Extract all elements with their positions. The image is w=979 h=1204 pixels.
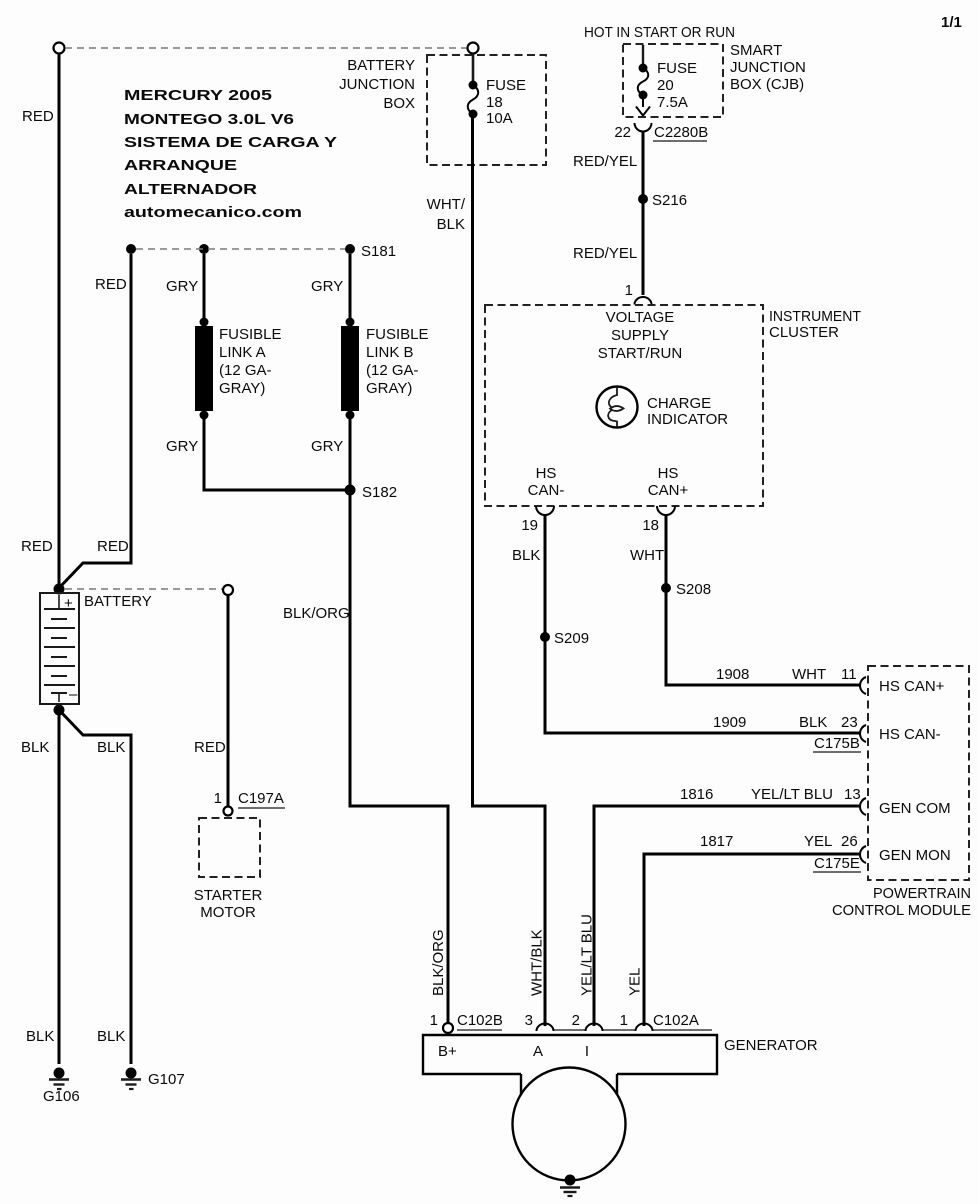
wire: dashed battery bus to starter feed bbox=[65, 588, 222, 590]
svg-text:1: 1 bbox=[625, 282, 633, 299]
svg-text:C175B: C175B bbox=[814, 735, 860, 752]
svg-text:GEN MON: GEN MON bbox=[879, 847, 951, 864]
svg-text:GRAY): GRAY) bbox=[366, 380, 412, 397]
wire: top dashed bus bbox=[65, 47, 467, 49]
svg-text:automecanico.com: automecanico.com bbox=[124, 204, 302, 221]
svg-text:ALTERNADOR: ALTERNADOR bbox=[124, 181, 257, 198]
svg-text:FUSE: FUSE bbox=[486, 77, 526, 94]
svg-text:G107: G107 bbox=[148, 1071, 185, 1088]
generator box bbox=[423, 1035, 717, 1074]
svg-text:GRY: GRY bbox=[166, 438, 198, 455]
node: battery junction box feed circle bbox=[468, 43, 479, 54]
ground G107 bbox=[126, 1068, 137, 1079]
svg-text:BLK: BLK bbox=[437, 216, 465, 233]
svg-text:C175E: C175E bbox=[814, 855, 860, 872]
svg-text:BLK: BLK bbox=[26, 1028, 54, 1045]
svg-text:22: 22 bbox=[614, 124, 631, 141]
svg-text:STARTER: STARTER bbox=[194, 887, 263, 904]
svg-text:2: 2 bbox=[572, 1012, 580, 1029]
svg-text:RED: RED bbox=[95, 276, 127, 293]
svg-text:G106: G106 bbox=[43, 1088, 80, 1105]
wire: GRY from link A to S182 bbox=[204, 419, 345, 490]
svg-text:GRY: GRY bbox=[311, 278, 343, 295]
connector pin 19 bbox=[536, 506, 554, 515]
svg-text:1908: 1908 bbox=[716, 666, 749, 683]
battery negative junction dot bbox=[54, 705, 65, 716]
svg-text:–: – bbox=[69, 686, 78, 703]
svg-text:BLK: BLK bbox=[512, 547, 540, 564]
fusible link B bbox=[346, 318, 355, 327]
svg-text:CONTROL MODULE: CONTROL MODULE bbox=[832, 902, 971, 919]
splice S208 bbox=[661, 583, 671, 593]
wire: YEL/LT BLU from PCM 13 to generator I bbox=[594, 806, 859, 1026]
wire: WHT from pin 18 to PCM 11 bbox=[666, 515, 859, 686]
svg-text:WHT: WHT bbox=[630, 547, 664, 564]
svg-text:YEL: YEL bbox=[627, 968, 644, 996]
powertrain control module box (dashed) bbox=[868, 666, 969, 880]
node: starter feed circle bbox=[223, 585, 233, 595]
svg-text:10A: 10A bbox=[486, 110, 513, 127]
svg-text:CAN-: CAN- bbox=[528, 482, 565, 499]
svg-text:13: 13 bbox=[844, 786, 861, 803]
svg-text:GRY: GRY bbox=[166, 278, 198, 295]
svg-text:MERCURY 2005: MERCURY 2005 bbox=[124, 87, 272, 104]
svg-text:GEN COM: GEN COM bbox=[879, 800, 951, 817]
svg-text:3: 3 bbox=[525, 1012, 533, 1029]
svg-text:MONTEGO 3.0L V6: MONTEGO 3.0L V6 bbox=[124, 111, 294, 128]
svg-text:+: + bbox=[64, 595, 73, 612]
wire: GRY to fusible link B bbox=[349, 254, 352, 322]
svg-text:1: 1 bbox=[214, 790, 222, 807]
battery junction box (dashed) bbox=[427, 55, 546, 165]
svg-text:RED: RED bbox=[194, 739, 226, 756]
S181 splice bus (dashed) bbox=[126, 244, 136, 254]
wire: RED from S181 to battery + bbox=[59, 254, 131, 588]
svg-text:C102A: C102A bbox=[653, 1012, 699, 1029]
svg-text:(12 GA-: (12 GA- bbox=[366, 362, 419, 379]
svg-text:1816: 1816 bbox=[680, 786, 713, 803]
svg-text:1: 1 bbox=[620, 1012, 628, 1029]
svg-text:BOX (CJB): BOX (CJB) bbox=[730, 76, 804, 93]
starter motor box (dashed) bbox=[199, 818, 260, 877]
charge indicator lamp bbox=[597, 387, 638, 428]
svg-text:GRAY): GRAY) bbox=[219, 380, 265, 397]
svg-text:BATTERY: BATTERY bbox=[84, 593, 152, 610]
wire: RED/YEL to instrument cluster bbox=[642, 132, 645, 296]
svg-text:S216: S216 bbox=[652, 192, 687, 209]
splice S182 bbox=[345, 485, 356, 496]
svg-text:YEL/LT BLU: YEL/LT BLU bbox=[579, 914, 596, 996]
node: top-left junction circle bbox=[54, 43, 65, 54]
connector pin 13 at PCM bbox=[860, 798, 866, 815]
svg-text:S182: S182 bbox=[362, 484, 397, 501]
svg-text:BLK: BLK bbox=[21, 739, 49, 756]
connector pin 11 at PCM bbox=[860, 677, 866, 694]
fuse 20 7.5A bbox=[642, 45, 644, 66]
svg-text:HOT IN START OR RUN: HOT IN START OR RUN bbox=[584, 24, 735, 41]
wire: BLK right to G107 bbox=[60, 711, 131, 1064]
wire: BLK from pin 19 to PCM 23 bbox=[545, 515, 859, 734]
svg-text:S208: S208 bbox=[676, 581, 711, 598]
svg-text:FUSIBLE: FUSIBLE bbox=[219, 326, 282, 343]
svg-text:INDICATOR: INDICATOR bbox=[647, 411, 728, 428]
svg-text:C2280B: C2280B bbox=[654, 124, 708, 141]
svg-text:BLK: BLK bbox=[799, 714, 827, 731]
svg-text:BLK: BLK bbox=[97, 1028, 125, 1045]
svg-text:POWERTRAIN: POWERTRAIN bbox=[873, 885, 971, 902]
svg-text:RED: RED bbox=[21, 538, 53, 555]
svg-text:CLUSTER: CLUSTER bbox=[769, 324, 839, 341]
svg-text:20: 20 bbox=[657, 77, 674, 94]
wire: BLK/ORG from S182 to generator B+ bbox=[350, 495, 448, 1022]
svg-text:BLK: BLK bbox=[97, 739, 125, 756]
svg-text:BLK/ORG: BLK/ORG bbox=[283, 605, 350, 622]
ground G106 bbox=[54, 1068, 65, 1079]
fuse 18 10A bbox=[472, 54, 475, 84]
svg-text:C197A: C197A bbox=[238, 790, 284, 807]
svg-text:RED/YEL: RED/YEL bbox=[573, 153, 637, 170]
svg-text:FUSIBLE: FUSIBLE bbox=[366, 326, 429, 343]
svg-text:S181: S181 bbox=[361, 243, 396, 260]
svg-text:ARRANQUE: ARRANQUE bbox=[124, 157, 237, 174]
wire: GRY link B to S182 bbox=[349, 419, 352, 488]
smart junction box CJB (dashed) bbox=[623, 44, 723, 117]
svg-text:(12 GA-: (12 GA- bbox=[219, 362, 272, 379]
svg-text:RED: RED bbox=[97, 538, 129, 555]
svg-text:19: 19 bbox=[521, 517, 538, 534]
wire: BLK left to G106 bbox=[58, 707, 61, 1064]
connector pin 23 at PCM bbox=[860, 725, 866, 742]
wire: WHT/BLK from fuse 18 down to generator A bbox=[473, 116, 546, 1026]
svg-text:26: 26 bbox=[841, 833, 858, 850]
svg-text:SUPPLY: SUPPLY bbox=[611, 327, 669, 344]
connector pin 18 bbox=[657, 506, 675, 515]
svg-text:1817: 1817 bbox=[700, 833, 733, 850]
svg-text:INSTRUMENT: INSTRUMENT bbox=[769, 308, 861, 325]
svg-text:GRY: GRY bbox=[311, 438, 343, 455]
battery bbox=[40, 593, 79, 704]
svg-text:CHARGE: CHARGE bbox=[647, 395, 711, 412]
svg-text:JUNCTION: JUNCTION bbox=[339, 76, 415, 93]
svg-text:HS: HS bbox=[658, 465, 679, 482]
svg-text:23: 23 bbox=[841, 714, 858, 731]
svg-text:I: I bbox=[585, 1043, 589, 1060]
svg-text:VOLTAGE: VOLTAGE bbox=[606, 309, 675, 326]
svg-text:11: 11 bbox=[841, 666, 857, 683]
wire: left RED main vertical bbox=[58, 54, 61, 587]
svg-text:S209: S209 bbox=[554, 630, 589, 647]
instrument cluster box (dashed) bbox=[485, 305, 763, 506]
svg-text:HS CAN+: HS CAN+ bbox=[879, 678, 945, 695]
svg-text:SMART: SMART bbox=[730, 42, 782, 59]
svg-text:SISTEMA DE CARGA Y: SISTEMA DE CARGA Y bbox=[124, 134, 337, 151]
svg-text:HS: HS bbox=[536, 465, 557, 482]
svg-text:MOTOR: MOTOR bbox=[200, 904, 256, 921]
svg-text:1909: 1909 bbox=[713, 714, 746, 731]
svg-text:YEL/LT BLU: YEL/LT BLU bbox=[751, 786, 833, 803]
svg-text:C102B: C102B bbox=[457, 1012, 503, 1029]
svg-text:GENERATOR: GENERATOR bbox=[724, 1037, 818, 1054]
svg-text:1: 1 bbox=[430, 1012, 438, 1029]
svg-text:BLK/ORG: BLK/ORG bbox=[430, 929, 447, 996]
fusible link A bbox=[200, 318, 209, 327]
svg-text:WHT/: WHT/ bbox=[427, 196, 466, 213]
svg-text:FUSE: FUSE bbox=[657, 60, 697, 77]
svg-text:CAN+: CAN+ bbox=[648, 482, 689, 499]
wire: YEL from PCM 26 to generator pin 1 bbox=[644, 854, 859, 1026]
splice S209 bbox=[540, 632, 550, 642]
svg-text:A: A bbox=[533, 1043, 543, 1060]
generator circle bbox=[513, 1068, 626, 1181]
splice S216 bbox=[638, 194, 648, 204]
generator ground bbox=[565, 1175, 576, 1186]
svg-text:LINK B: LINK B bbox=[366, 344, 414, 361]
svg-text:BATTERY: BATTERY bbox=[347, 57, 415, 74]
svg-text:HS CAN-: HS CAN- bbox=[879, 726, 941, 743]
wire: GRY to fusible link A bbox=[203, 254, 206, 322]
wire: RED to starter motor bbox=[227, 595, 230, 806]
svg-text:1/1: 1/1 bbox=[941, 14, 962, 31]
svg-text:RED: RED bbox=[22, 108, 54, 125]
svg-text:BOX: BOX bbox=[383, 95, 415, 112]
svg-text:18: 18 bbox=[486, 94, 503, 111]
svg-text:YEL: YEL bbox=[804, 833, 832, 850]
svg-text:LINK A: LINK A bbox=[219, 344, 266, 361]
connector pin 26 at PCM bbox=[860, 846, 866, 863]
svg-text:JUNCTION: JUNCTION bbox=[730, 59, 806, 76]
battery positive junction dot bbox=[54, 584, 65, 595]
connector C2280B pin 22 bbox=[635, 123, 652, 132]
svg-text:RED/YEL: RED/YEL bbox=[573, 245, 637, 262]
svg-text:7.5A: 7.5A bbox=[657, 94, 688, 111]
svg-text:18: 18 bbox=[642, 517, 659, 534]
svg-text:START/RUN: START/RUN bbox=[598, 345, 682, 362]
svg-text:WHT/BLK: WHT/BLK bbox=[529, 929, 546, 996]
svg-text:B+: B+ bbox=[438, 1043, 457, 1060]
svg-text:WHT: WHT bbox=[792, 666, 826, 683]
